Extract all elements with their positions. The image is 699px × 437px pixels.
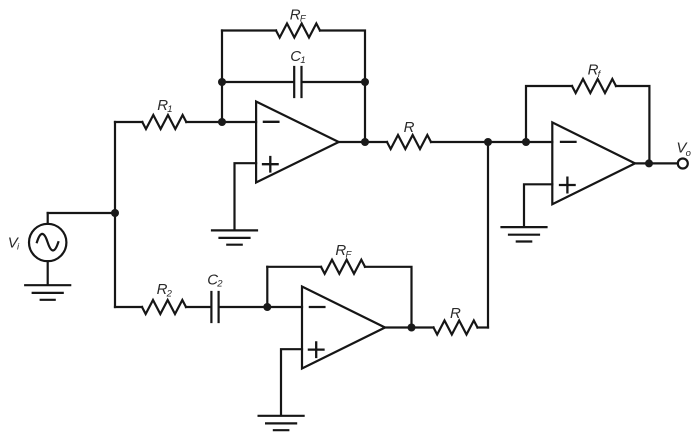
node: summing junction <box>484 138 492 146</box>
svg-text:R1: R1 <box>157 97 172 115</box>
wire: U3 feedback loop left <box>526 86 572 142</box>
label RF (bottom) <box>335 242 352 260</box>
resistor R1 <box>142 115 186 129</box>
source V1 circle <box>29 213 66 285</box>
resistor R2 <box>142 300 186 314</box>
wire: source to left column <box>48 212 115 214</box>
wire: top feedback loop right <box>320 31 365 143</box>
wire: U2 non-inverting input to ground <box>281 349 302 415</box>
op-amp U2 <box>302 287 385 369</box>
capacitor C1 <box>222 67 365 97</box>
label Rf <box>588 62 602 80</box>
svg-text:R: R <box>450 305 461 322</box>
svg-text:Rf: Rf <box>588 62 602 80</box>
node: U2 inverting input <box>263 303 271 311</box>
wire: R2 lead-in <box>115 306 142 308</box>
wire: top feedback loop left <box>222 29 276 31</box>
label Vo <box>676 140 691 159</box>
ground (below source) <box>25 285 70 300</box>
label R (top) <box>404 119 415 136</box>
terminal Vo <box>678 159 688 169</box>
svg-text:C1: C1 <box>290 48 305 66</box>
label R (bottom) <box>450 305 461 322</box>
wire: U3 feedback loop right <box>616 86 649 163</box>
svg-text:R: R <box>404 119 415 136</box>
svg-text:C2: C2 <box>207 271 223 289</box>
wire: U1 non-inverting input to ground <box>235 163 257 229</box>
op-amp U3 <box>552 122 635 204</box>
wire: U2 output <box>385 326 434 328</box>
wire: U3 output to terminal <box>635 162 678 164</box>
node: U1 inverting input <box>218 118 226 126</box>
node: U2 output <box>408 324 416 332</box>
resistor R (bottom) <box>434 321 478 335</box>
wire: U1 output <box>339 141 387 143</box>
svg-text:Vo: Vo <box>676 140 691 159</box>
svg-text:RF: RF <box>290 6 307 24</box>
label C2 <box>207 271 223 289</box>
wire: R bottom to summing vertical <box>478 326 489 328</box>
ground (U2 + input) <box>259 416 304 430</box>
svg-text:R2: R2 <box>157 281 173 299</box>
wire: summing vertical from bottom stage <box>487 142 489 328</box>
node: U1 output <box>361 138 369 146</box>
ground (U3 + input) <box>502 227 547 241</box>
wire: node B vertical to bottom feedback <box>266 267 268 307</box>
resistor Rf <box>572 79 616 93</box>
wire: bottom feedback loop right <box>365 267 412 328</box>
resistor RF (bottom) <box>321 260 365 274</box>
node: C1 right tap <box>361 78 369 86</box>
ground (U1 + input) <box>212 230 257 244</box>
label R1 <box>157 97 172 115</box>
wire: R1 lead-in <box>115 121 142 123</box>
wire: node A vertical to feedback <box>221 31 223 123</box>
label RF (top) <box>290 6 307 24</box>
node: source junction <box>111 209 119 217</box>
wire: left column vertical <box>114 122 116 307</box>
resistor R (top) <box>387 135 431 149</box>
node: U3 feedback tap <box>522 138 530 146</box>
wire: R1 to op-amp U1 inverting input <box>186 121 256 123</box>
node: U3 output <box>645 159 653 167</box>
label C1 <box>290 48 305 66</box>
resistor RF (top) <box>276 24 320 38</box>
op-amp U1 <box>256 102 339 183</box>
svg-text:Vi: Vi <box>8 234 20 252</box>
wire: R to U3 inverting input <box>431 141 552 143</box>
label Vi <box>8 234 20 252</box>
node: C1 left tap <box>218 78 226 86</box>
label R2 <box>157 281 173 299</box>
wire: U3 non-inverting input to ground <box>524 184 552 226</box>
capacitor C2 <box>186 292 302 322</box>
wire: bottom feedback loop left <box>267 266 321 268</box>
svg-text:RF: RF <box>335 242 352 260</box>
